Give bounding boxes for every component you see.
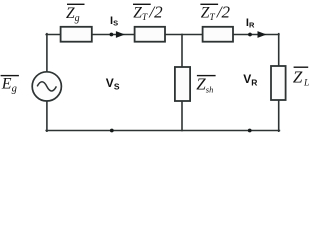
node dot on bottom bus below V_S [110,129,114,133]
resistor box Z_sh (shunt impedance) [175,67,190,101]
svg-text:Eg: Eg [1,76,17,95]
label Z_sh with overline [196,75,215,95]
svg-text:VS: VS [106,76,120,92]
wire: right vertical through load branch [278,34,280,132]
wire: top bus from source corner to load corner [46,34,279,36]
svg-text:Zg: Zg [66,5,80,24]
svg-text:ZT/2: ZT/2 [201,2,231,23]
svg-text:VR: VR [243,72,257,88]
resistor box Z_L (load impedance) [271,66,286,100]
label Z_T/2 right with overline [200,2,230,23]
label E_g with overline [1,75,19,95]
node dot on bottom bus below V_R [248,129,252,133]
resistor box Z_g (generator impedance) [61,27,92,42]
svg-text:ZL: ZL [293,68,309,89]
resistor box Z_T/2 left [135,27,165,42]
svg-text:ZT/2: ZT/2 [133,2,163,23]
label Z_g with overline [66,4,85,24]
voltage source E_g (AC generator circle with sine) [32,72,61,101]
wire: source bottom stub [46,101,48,131]
svg-text:IS: IS [110,15,118,27]
wire: left vertical from top bus to source [46,34,48,72]
label Z_T/2 left with overline [133,2,163,23]
wire: bottom bus [46,130,279,132]
current arrow I_S (dot and arrowhead on top bus) [110,31,125,38]
wire: shunt branch vertical [181,35,183,131]
resistor box Z_T/2 right [203,27,233,42]
label Z_L with overline [293,67,309,89]
svg-text:IR: IR [246,17,255,30]
current arrow I_R (dot and arrowhead on top bus) [248,31,266,38]
svg-text:Zsh: Zsh [196,75,213,95]
